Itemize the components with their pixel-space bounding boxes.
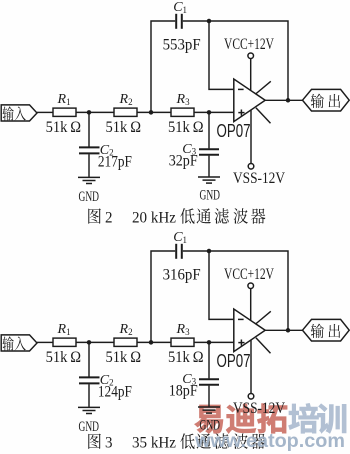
ground under C2 bbox=[78, 407, 100, 434]
svg-text:124pF: 124pF bbox=[98, 383, 132, 400]
wire op-amp output to port, output node junction bbox=[265, 328, 302, 333]
capacitor C2 124pF bbox=[79, 373, 132, 401]
wire R2 to R3, node B junction bbox=[137, 340, 171, 345]
wire C3 to ground bbox=[208, 386, 210, 407]
wire C2 to ground bbox=[88, 154, 90, 177]
wire R1 to R2, node A junction bbox=[76, 340, 114, 345]
svg-text:VCC+12V: VCC+12V bbox=[224, 266, 275, 283]
svg-text:217pF: 217pF bbox=[98, 153, 132, 170]
svg-text:VSS-12V: VSS-12V bbox=[233, 170, 286, 187]
op-amp pin stub lower bbox=[256, 108, 271, 124]
caption 图3 35kHz low-pass filter bbox=[88, 433, 265, 451]
capacitor C1 316pF bbox=[163, 230, 201, 284]
svg-text:18pF: 18pF bbox=[169, 383, 198, 400]
wire input to R1 bbox=[37, 341, 53, 343]
wire feedback to op-amp inverting input bbox=[209, 21, 234, 89]
output port 输出 bbox=[303, 89, 350, 111]
input port 输入 bbox=[1, 335, 37, 351]
feedback wire node B up to C1 line bbox=[151, 21, 175, 112]
watermark 易迪拓培训 red characters bbox=[195, 404, 287, 434]
input port 输入 bbox=[1, 105, 37, 121]
wire input to R1 bbox=[37, 111, 53, 113]
feedback wire C1 to output node bbox=[183, 19, 288, 101]
wire node A down to C2 bbox=[88, 342, 90, 376]
wire node C down to C3 bbox=[208, 342, 210, 378]
wire node A down to C2 bbox=[88, 112, 90, 146]
svg-text:553pF: 553pF bbox=[163, 37, 201, 54]
wire feedback to op-amp inverting input bbox=[209, 251, 234, 319]
capacitor C1 553pF bbox=[163, 0, 201, 54]
VSS -12V supply terminal bbox=[233, 340, 286, 417]
output port 输出 bbox=[303, 319, 350, 341]
wire R1 to R2, node A junction bbox=[76, 110, 114, 115]
ground under C2 bbox=[78, 177, 100, 204]
wire R3 to op-amp noninverting input, node C junction bbox=[194, 340, 234, 345]
capacitor C3 32pF bbox=[169, 142, 219, 170]
wire R3 to op-amp noninverting input, node C junction bbox=[194, 110, 234, 115]
resistor R2 bbox=[106, 322, 142, 366]
VSS -12V supply terminal bbox=[233, 110, 286, 187]
wire op-amp output to port, output node junction bbox=[265, 98, 302, 103]
wire node C down to C3 bbox=[208, 112, 210, 148]
wire C3 to ground bbox=[208, 156, 210, 177]
ground under C3 bbox=[198, 177, 220, 203]
svg-text:51k Ω: 51k Ω bbox=[46, 119, 82, 136]
svg-text:316pF: 316pF bbox=[163, 267, 201, 284]
op-amp pin stub upper bbox=[256, 311, 271, 324]
svg-text:3: 3 bbox=[105, 435, 113, 452]
svg-text:51k Ω: 51k Ω bbox=[46, 349, 82, 366]
svg-text:GND: GND bbox=[200, 187, 221, 203]
caption 图2 20kHz low-pass filter bbox=[88, 208, 265, 226]
svg-text:VSS-12V: VSS-12V bbox=[233, 400, 286, 417]
op-amp U2 OP07 triangle bbox=[217, 309, 266, 371]
resistor R3 bbox=[168, 322, 204, 366]
VCC +12V supply terminal bbox=[224, 36, 275, 91]
capacitor C2 217pF bbox=[79, 143, 132, 171]
wire R2 to R3, node B junction bbox=[137, 110, 171, 115]
svg-text:GND: GND bbox=[79, 189, 100, 205]
svg-text:OP07: OP07 bbox=[217, 350, 251, 371]
VCC +12V supply terminal bbox=[224, 266, 275, 321]
ground under C3 bbox=[198, 407, 220, 433]
feedback wire node B up to C1 line bbox=[151, 251, 175, 342]
resistor R1 bbox=[46, 322, 82, 366]
resistor R1 bbox=[46, 92, 82, 136]
svg-text:OP07: OP07 bbox=[217, 120, 251, 141]
op-amp pin stub upper bbox=[256, 81, 271, 94]
capacitor C3 18pF bbox=[169, 372, 219, 400]
feedback wire C1 to output node bbox=[183, 249, 288, 331]
resistor R3 bbox=[168, 92, 204, 136]
svg-text:51k Ω: 51k Ω bbox=[106, 349, 142, 366]
svg-text:20 kHz: 20 kHz bbox=[132, 209, 176, 226]
resistor R2 bbox=[106, 92, 142, 136]
svg-text:35 kHz: 35 kHz bbox=[132, 435, 176, 452]
svg-text:GND: GND bbox=[79, 419, 100, 435]
op-amp pin stub lower bbox=[256, 338, 271, 354]
wire C2 to ground bbox=[88, 384, 90, 407]
svg-text:51k Ω: 51k Ω bbox=[168, 349, 204, 366]
svg-text:VCC+12V: VCC+12V bbox=[224, 36, 275, 53]
svg-text:32pF: 32pF bbox=[169, 153, 198, 170]
svg-text:2: 2 bbox=[105, 209, 113, 226]
svg-text:51k Ω: 51k Ω bbox=[106, 119, 142, 136]
svg-text:www.eatop.com: www.eatop.com bbox=[194, 430, 345, 452]
watermark 培训 blue characters bbox=[289, 403, 346, 433]
svg-text:51k Ω: 51k Ω bbox=[168, 119, 204, 136]
op-amp U1 OP07 triangle bbox=[217, 79, 266, 141]
